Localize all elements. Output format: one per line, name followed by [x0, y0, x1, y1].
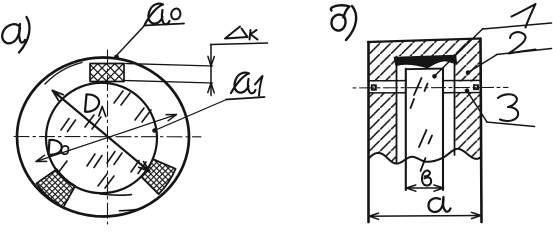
band knockout: [367, 82, 482, 93]
label 2: [509, 32, 536, 53]
figure label а): [2, 17, 29, 53]
glass marks (lens side view): [411, 78, 433, 171]
label Dл: [85, 94, 106, 116]
sketch stroke inner bottom: [100, 194, 132, 195]
vertical centerline: [107, 50, 109, 224]
dimension Δк: [210, 45, 212, 96]
dimension в: [407, 187, 444, 189]
leader 1: [435, 29, 484, 77]
mount body (hatched): [368, 39, 482, 164]
lens circle: [46, 83, 157, 193]
bore knockout: [397, 56, 455, 168]
label D0: [49, 140, 69, 155]
extension lines for Δк: [126, 64, 213, 67]
left screw block: [371, 84, 377, 90]
retaining band lines: [368, 80, 481, 93]
bore walls: [396, 57, 398, 163]
mount outline: [368, 39, 481, 43]
horizontal centerline: [14, 136, 201, 138]
leader 2: [468, 55, 497, 73]
top spacer pad (cross-hatched): [90, 64, 124, 82]
leader α0: [117, 25, 146, 56]
diameter arrow Dл: [53, 91, 150, 172]
glass hatch marks (lens front view): [58, 91, 151, 188]
label 1: [512, 4, 536, 28]
figure label б): [331, 5, 356, 40]
lens side view walls: [405, 69, 407, 190]
leader 3: [467, 91, 487, 122]
label в: [422, 171, 431, 186]
mount outer circle: [17, 58, 189, 217]
label α1: [231, 73, 263, 96]
sketch stroke outer bottom: [120, 209, 139, 211]
label α0: [145, 4, 180, 25]
label а: [429, 197, 451, 212]
centerline: [353, 86, 508, 89]
sketch stroke outer upper-left: [45, 63, 82, 85]
dimension а: [369, 215, 481, 218]
right screw block: [473, 84, 479, 90]
label Δк: [225, 27, 258, 40]
label 3: [498, 94, 518, 121]
leader α1: [155, 100, 227, 131]
rolled rim (black wedge): [394, 55, 457, 68]
break wavy line: [369, 149, 482, 164]
diameter arrow D0: [36, 115, 177, 162]
lower-right spacer pad: [141, 159, 176, 194]
lower-left spacer pad: [37, 169, 76, 207]
